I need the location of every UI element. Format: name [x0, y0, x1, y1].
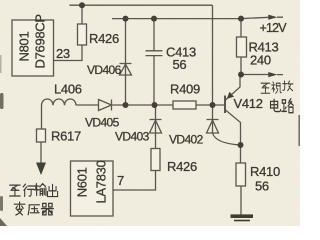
char 变: [14, 202, 25, 215]
wire rail1 right vertical down to R409 node: [212, 5, 214, 105]
svg-text:R410: R410: [250, 164, 280, 179]
svg-text:N601: N601: [75, 167, 90, 197]
svg-text:7: 7: [117, 173, 124, 188]
junction node R413/collector: [238, 72, 244, 78]
svg-text:R617: R617: [51, 129, 81, 144]
junction node rail2/C413: [151, 16, 157, 22]
transistor V412 base bar: [224, 96, 226, 114]
wire R426 bottom to pin 7 of N601: [114, 171, 156, 191]
char 至: [10, 185, 20, 196]
diode VD403: [150, 120, 162, 134]
wire R426 bottom lead to pin 23: [54, 45, 83, 61]
arrow +12V: [268, 15, 277, 20]
wire L406 to VD405: [76, 104, 99, 106]
resistor R426 (bottom): [151, 149, 160, 171]
text 至视放 (to video): [261, 81, 293, 93]
transistor V412 emitter (top): [226, 75, 241, 101]
junction node emitter/R410: [238, 142, 244, 148]
diode VD403 branch: [155, 105, 157, 149]
svg-text:R409: R409: [170, 82, 200, 97]
scan artifacts left edge: [0, 55, 7, 226]
svg-text:23: 23: [56, 46, 70, 61]
wire +12V rail 2: [112, 17, 283, 18]
resistor R410: [236, 163, 246, 186]
diode VD405: [99, 100, 112, 111]
resistor R413: [237, 37, 247, 57]
inductor L406: [42, 99, 77, 129]
junction node C413/VD403: [152, 102, 158, 108]
wire VD402 to emitter node: [213, 133, 241, 145]
svg-text:VD406: VD406: [87, 63, 122, 77]
wire R426 top lead: [81, 5, 83, 24]
char 输: [34, 184, 46, 196]
char 行: [23, 184, 34, 196]
char 出: [47, 184, 57, 196]
junction node rail1/R426: [79, 2, 85, 8]
diode VD402 branch: [212, 105, 214, 133]
IC N601 box: [71, 161, 114, 216]
arrow down to flyback: [36, 163, 46, 176]
char 路: [282, 99, 293, 113]
ground: [231, 216, 254, 220]
junction node rail2/VD406: [123, 16, 129, 22]
svg-text:56: 56: [173, 57, 187, 72]
resistor R409: [173, 101, 196, 109]
char 至: [261, 83, 270, 93]
svg-text:56: 56: [255, 179, 269, 194]
diode VD402: [207, 120, 219, 134]
svg-text:240: 240: [250, 53, 271, 68]
resistor R410 leads: [240, 145, 243, 216]
svg-text:R426: R426: [167, 159, 197, 174]
junction node R409/VD402/base: [210, 102, 216, 108]
wire R409 to V412 base: [196, 104, 225, 106]
wire VD406 branch vertical: [125, 19, 127, 105]
svg-text:N801: N801: [17, 32, 32, 62]
svg-text:L406: L406: [54, 82, 82, 97]
char 电: [271, 99, 281, 111]
transistor V412 emitter arrow: [227, 92, 234, 99]
wire to video amp arrow: [241, 74, 283, 76]
diode VD406: [120, 64, 132, 76]
scan artifact right edge: [298, 115, 300, 146]
wire VD405 to R409: [112, 104, 174, 106]
junction node VD406/VD405: [123, 102, 129, 108]
char 压: [28, 205, 39, 215]
svg-text:LA7830: LA7830: [94, 160, 109, 203]
svg-text:R426: R426: [89, 31, 119, 46]
wire C413 bottom lead: [153, 56, 155, 105]
svg-text:VD405: VD405: [85, 116, 120, 130]
text 至行输出 (to line output): [10, 184, 58, 197]
svg-text:V412: V412: [234, 96, 263, 111]
IC N801 box: [12, 20, 54, 76]
resistor R617: [37, 129, 46, 142]
resistor R413 leads: [240, 19, 242, 75]
svg-text:D7698CP: D7698CP: [33, 14, 48, 68]
wire R617 to arrow: [40, 142, 42, 163]
capacitor C413: [146, 51, 163, 56]
char 放: [283, 81, 293, 91]
arrow to video circuit: [268, 72, 277, 77]
text 变压器 (transformer): [14, 202, 53, 215]
svg-text:VD403: VD403: [115, 130, 150, 144]
svg-text:VD402: VD402: [169, 133, 204, 147]
char 视: [272, 82, 282, 93]
junction node rail2/R413: [238, 16, 244, 22]
wire C413 top lead: [153, 19, 155, 51]
text 电路 (circuit): [271, 99, 294, 113]
char 器: [41, 203, 53, 215]
transistor V412 collector (bottom): [226, 110, 241, 145]
wire top rail 1: [70, 4, 213, 6]
svg-text:+12V: +12V: [260, 21, 288, 35]
resistor R426 (top): [78, 24, 87, 45]
